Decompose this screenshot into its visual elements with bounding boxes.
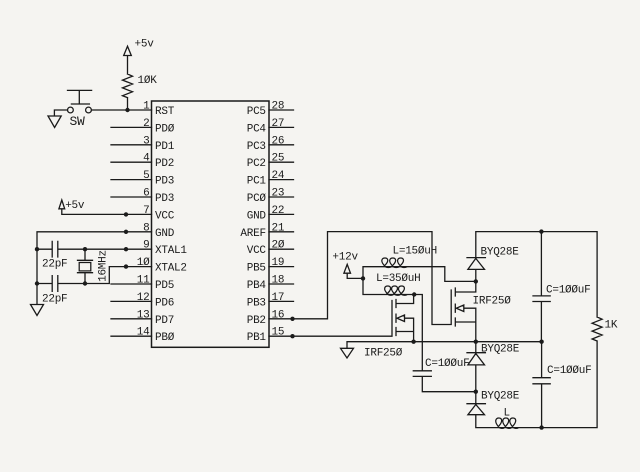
svg-text:PD3: PD3 xyxy=(155,176,174,188)
svg-text:21: 21 xyxy=(272,222,285,234)
svg-text:XTAL1: XTAL1 xyxy=(155,245,187,257)
svg-text:17: 17 xyxy=(272,292,285,304)
svg-text:22pF: 22pF xyxy=(42,294,67,306)
svg-text:PD2: PD2 xyxy=(155,158,174,170)
svg-text:9: 9 xyxy=(143,240,149,252)
svg-text:PB2: PB2 xyxy=(247,315,266,327)
svg-text:1K: 1K xyxy=(605,320,618,332)
svg-text:L=35ØuH: L=35ØuH xyxy=(376,273,420,285)
svg-text:15: 15 xyxy=(272,327,285,339)
svg-text:4: 4 xyxy=(143,153,150,165)
svg-text:IRF25Ø: IRF25Ø xyxy=(473,296,512,308)
svg-text:+5v: +5v xyxy=(135,39,155,51)
svg-text:PC3: PC3 xyxy=(247,141,266,153)
svg-text:PD6: PD6 xyxy=(155,297,174,309)
svg-text:6: 6 xyxy=(143,188,149,200)
svg-text:GND: GND xyxy=(155,228,175,240)
svg-text:GND: GND xyxy=(247,210,267,222)
svg-text:L=15ØuH: L=15ØuH xyxy=(393,246,437,258)
svg-text:PD7: PD7 xyxy=(155,315,174,327)
svg-text:PBØ: PBØ xyxy=(155,332,175,344)
svg-text:PCØ: PCØ xyxy=(247,193,267,205)
svg-text:25: 25 xyxy=(272,153,285,165)
svg-text:PB1: PB1 xyxy=(247,332,267,344)
svg-text:IRF25Ø: IRF25Ø xyxy=(364,348,403,360)
svg-text:16: 16 xyxy=(272,309,285,321)
svg-text:+5v: +5v xyxy=(65,200,85,212)
svg-text:C=1ØØuF: C=1ØØuF xyxy=(547,365,591,377)
svg-text:13: 13 xyxy=(137,309,150,321)
svg-text:23: 23 xyxy=(272,188,285,200)
svg-text:PC1: PC1 xyxy=(247,176,267,188)
svg-text:14: 14 xyxy=(137,327,150,339)
svg-text:27: 27 xyxy=(272,118,285,130)
svg-text:5: 5 xyxy=(143,170,149,182)
svg-text:PB3: PB3 xyxy=(247,297,266,309)
svg-text:BYQ28E: BYQ28E xyxy=(481,247,520,259)
svg-text:7: 7 xyxy=(143,205,149,217)
svg-text:11: 11 xyxy=(137,275,150,287)
svg-text:XTAL2: XTAL2 xyxy=(155,263,187,275)
svg-text:22pF: 22pF xyxy=(42,258,67,270)
svg-text:L: L xyxy=(504,408,510,420)
svg-text:19: 19 xyxy=(272,257,285,269)
svg-text:VCC: VCC xyxy=(155,210,175,222)
svg-text:PDØ: PDØ xyxy=(155,123,175,135)
svg-text:12: 12 xyxy=(137,292,150,304)
svg-text:PB4: PB4 xyxy=(247,280,267,292)
svg-text:18: 18 xyxy=(272,275,285,287)
svg-text:PC2: PC2 xyxy=(247,158,266,170)
svg-text:28: 28 xyxy=(272,101,285,113)
svg-text:RST: RST xyxy=(155,106,175,118)
svg-text:8: 8 xyxy=(143,222,149,234)
svg-text:22: 22 xyxy=(272,205,285,217)
svg-text:+12v: +12v xyxy=(332,252,358,264)
svg-text:PD3: PD3 xyxy=(155,193,174,205)
svg-text:1ØK: 1ØK xyxy=(138,75,158,87)
svg-text:PD1: PD1 xyxy=(155,141,175,153)
svg-text:16MHz: 16MHz xyxy=(97,250,109,282)
svg-text:VCC: VCC xyxy=(247,245,267,257)
svg-text:1Ø: 1Ø xyxy=(137,257,150,269)
svg-text:1: 1 xyxy=(143,101,150,113)
svg-text:PC4: PC4 xyxy=(247,123,267,135)
svg-text:26: 26 xyxy=(272,135,285,147)
svg-text:2Ø: 2Ø xyxy=(272,240,285,252)
svg-text:SW: SW xyxy=(70,114,86,129)
svg-text:24: 24 xyxy=(272,170,285,182)
svg-text:PD5: PD5 xyxy=(155,280,174,292)
svg-text:BYQ28E: BYQ28E xyxy=(481,391,520,403)
svg-text:3: 3 xyxy=(143,135,149,147)
svg-text:C=1ØØuF: C=1ØØuF xyxy=(546,285,590,297)
svg-text:2: 2 xyxy=(143,118,149,130)
svg-text:PB5: PB5 xyxy=(247,263,266,275)
svg-text:AREF: AREF xyxy=(240,228,265,240)
svg-text:C=1ØØuF: C=1ØØuF xyxy=(425,358,469,370)
svg-text:PC5: PC5 xyxy=(247,106,266,118)
svg-text:BYQ28E: BYQ28E xyxy=(481,344,520,356)
